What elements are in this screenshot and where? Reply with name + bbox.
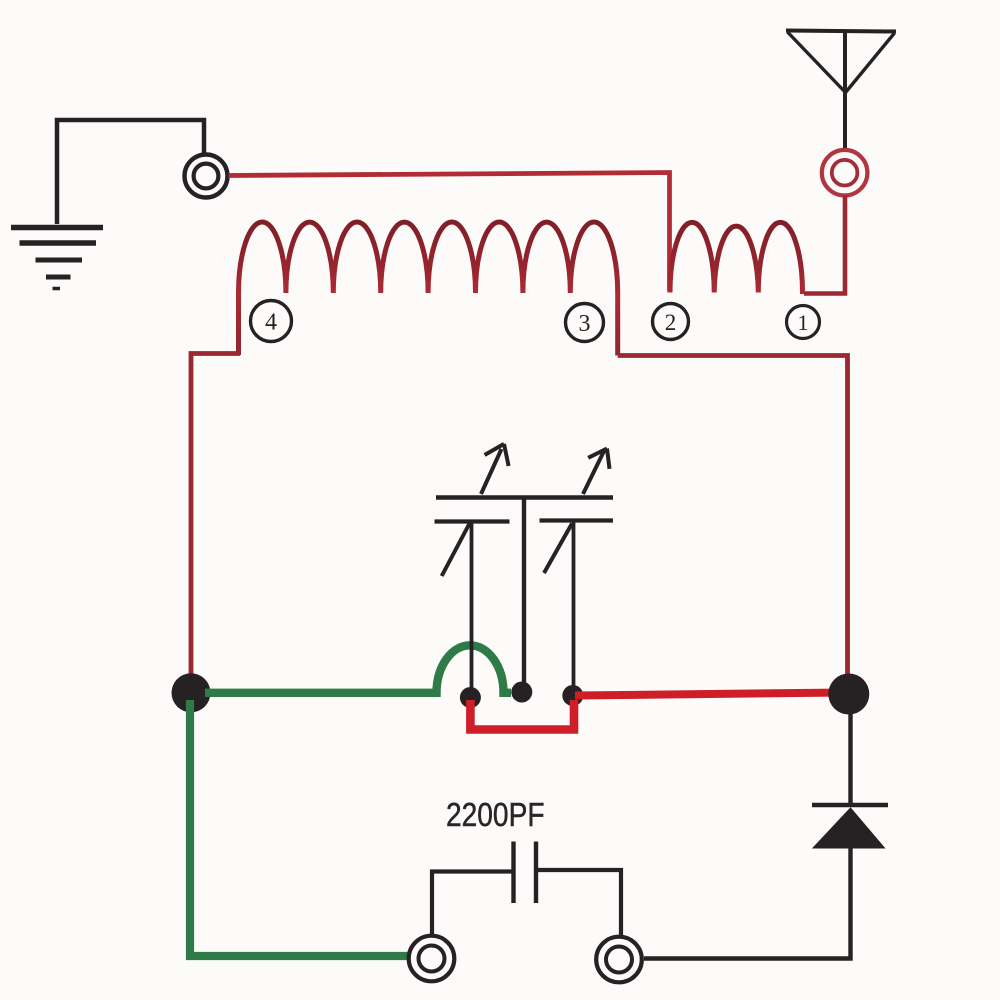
ground bbox=[11, 228, 103, 289]
node B bbox=[828, 674, 869, 715]
terminal J1 (ground binding post) bbox=[185, 155, 228, 198]
antenna bbox=[786, 31, 896, 152]
wire diode to terminal J4 bbox=[644, 848, 851, 959]
junction dot C1 bottom bbox=[460, 687, 481, 708]
terminal J2 (antenna binding post) bbox=[822, 150, 868, 196]
wire C3 left lead bbox=[432, 872, 514, 937]
pin 2 bbox=[653, 304, 689, 340]
svg-text:2200PF: 2200PF bbox=[446, 796, 545, 834]
pin 1 bbox=[787, 306, 820, 339]
wire red from J1 to coil tap 2 bbox=[229, 173, 670, 292]
diode D1 bbox=[812, 805, 888, 848]
wire C3 right lead bbox=[536, 870, 621, 937]
svg-text:2: 2 bbox=[665, 310, 677, 335]
wire red antenna to coil end 1 bbox=[804, 196, 845, 294]
junction dot C2 bottom bbox=[562, 685, 583, 706]
svg-text:4: 4 bbox=[265, 310, 277, 336]
wire green node A to varcap rotor with jump-over bbox=[205, 645, 511, 693]
capacitor C3 plates bbox=[514, 842, 537, 904]
pin 4 bbox=[251, 301, 292, 342]
wire tap 4 to node A bbox=[191, 354, 240, 676]
wire tap 3 to node B bbox=[618, 356, 848, 677]
svg-text:1: 1 bbox=[798, 310, 809, 335]
wire red C2 bottom to node B bbox=[575, 693, 846, 696]
wire varcap rotor plate common bbox=[436, 498, 613, 688]
wire red link C1-C2 bottoms bbox=[470, 700, 574, 730]
wire node B to diode bbox=[848, 694, 852, 805]
node A bbox=[172, 673, 211, 712]
terminal J3 bbox=[409, 936, 455, 982]
pin 3 bbox=[566, 304, 604, 342]
wire green node A down to terminal J3 bbox=[190, 700, 409, 956]
wire ground lead bbox=[57, 120, 204, 224]
terminal J4 bbox=[596, 937, 642, 983]
svg-text:3: 3 bbox=[579, 311, 591, 337]
variable capacitor C2 bbox=[540, 449, 614, 693]
inductor L1 winding 4-3 bbox=[239, 222, 618, 356]
junction dot rotor bbox=[511, 682, 532, 703]
variable capacitor C1 bbox=[435, 444, 510, 692]
inductor L1 winding 2-1 bbox=[670, 222, 803, 294]
